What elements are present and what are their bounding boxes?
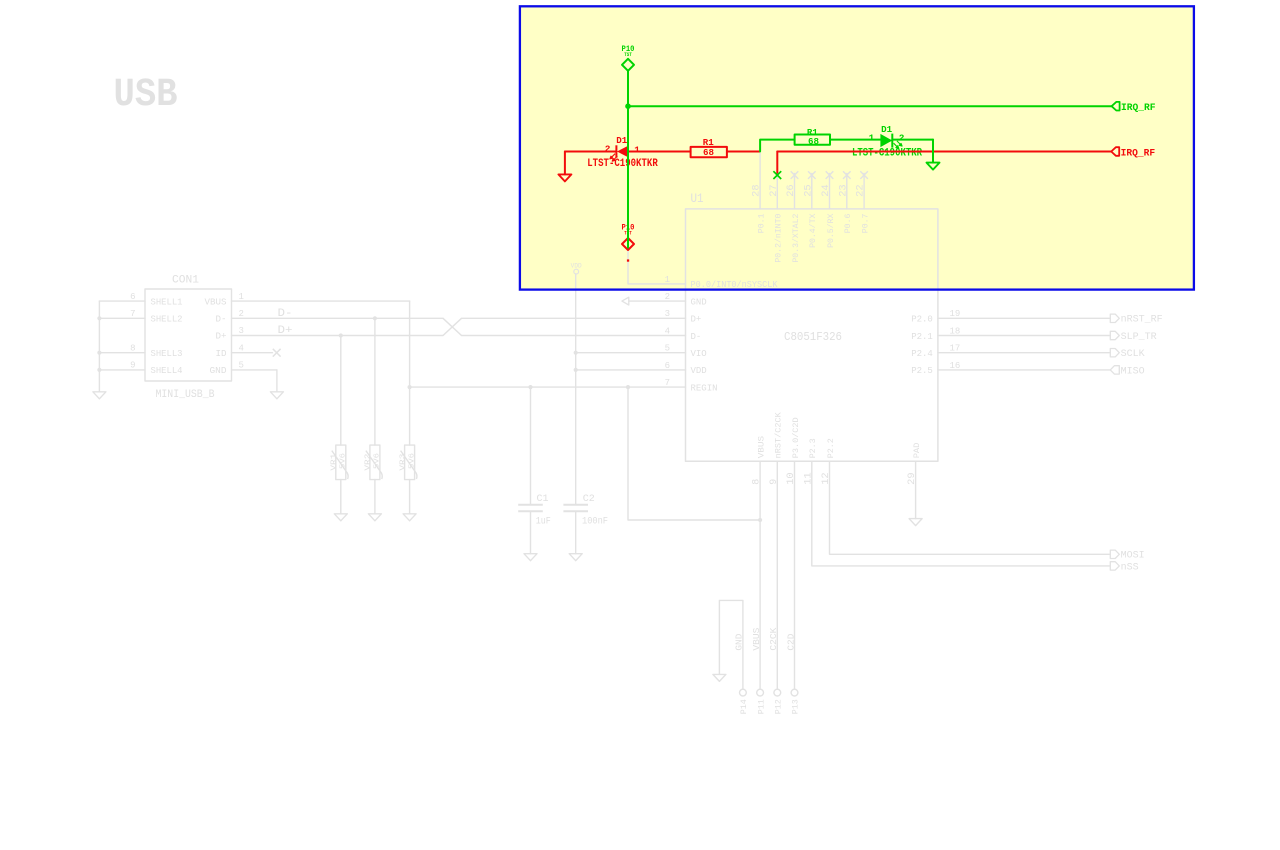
CON1 pin 8 wire [99,352,145,354]
svg-text:3: 3 [665,309,670,319]
junction VBUS-REGIN [408,385,412,389]
highlight box fill [520,6,1194,289]
wire U1 pin1 net [628,251,686,284]
wire PAD pin29 down [915,461,917,518]
svg-text:7: 7 [665,378,670,388]
wire U1 pin19 to nRST_RF [938,317,1110,319]
svg-text:5V6: 5V6 [340,452,348,469]
wire green D1 to ground [892,139,933,141]
junction shield pin9 [97,368,101,372]
wire red net left [565,151,617,153]
ground VR2 [368,514,381,521]
test point P10 (new) [622,59,634,71]
svg-text:D1: D1 [881,124,892,135]
wire green net to IRQ_RF [628,105,1112,107]
wire U1 pin24 [829,173,831,209]
svg-text:nRST/C2CK: nRST/C2CK [774,411,784,458]
svg-text:9: 9 [130,361,135,371]
svg-text:P0.3/XTAL2: P0.3/XTAL2 [791,214,801,263]
svg-text:D-: D- [691,332,702,342]
svg-text:P11: P11 [757,699,766,714]
global label MOSI [1110,550,1119,558]
svg-text:P0.1: P0.1 [757,214,767,234]
svg-text:68: 68 [808,136,819,147]
wire P2.3 to nSS [812,461,1111,566]
svg-text:5V6: 5V6 [408,452,416,469]
svg-text:MOSI: MOSI [1121,551,1145,562]
node red endpoint dot [627,259,629,261]
svg-text:5V6: 5V6 [374,452,382,469]
capacitor C1 [518,387,543,554]
ground shield [93,392,106,399]
ground VR3 [403,514,416,521]
svg-text:LTST-C190KTKR: LTST-C190KTKR [852,148,922,160]
svg-text:1: 1 [869,132,875,143]
global label nRST_RF [1110,314,1119,322]
svg-text:2: 2 [665,292,670,302]
varistor VR3 [401,445,417,514]
svg-text:D+: D+ [691,315,702,325]
svg-text:1: 1 [239,292,244,302]
svg-text:PAD: PAD [912,443,922,459]
junction shield pin8 [97,351,101,355]
svg-text:P14: P14 [740,699,749,714]
test point P10 (old) [622,238,634,250]
svg-text:SHELL4: SHELL4 [151,366,183,376]
wire ID stub [232,352,273,354]
svg-text:C1: C1 [537,494,549,505]
ground red [558,174,571,181]
wire C2D pin10 down [794,461,796,689]
wire D- from CON1 pin2 [232,317,444,319]
CON1 pin 9 wire [99,369,145,371]
label arrow GND pin2 [622,297,629,305]
wire green branch to pin28 [760,140,795,152]
wire red ground drop [564,152,566,175]
wire P2.2 to MOSI [830,461,1111,554]
svg-text:VBUS: VBUS [205,297,227,307]
no-connect X ID [273,349,281,357]
svg-text:VBUS: VBUS [751,627,762,650]
svg-text:P3.0/C2D: P3.0/C2D [791,417,801,458]
wire REGIN net [410,386,686,388]
varistor VR2 [366,318,382,514]
svg-text:VIO: VIO [691,349,707,359]
svg-text:D-: D- [278,308,293,320]
resistor R1 (new, 68) [795,135,830,145]
ground VR1 [334,514,347,521]
CON1 pin 7 wire [99,317,145,319]
svg-text:VR1: VR1 [331,453,339,471]
svg-text:SCLK: SCLK [1121,349,1145,360]
test point P11 [757,689,764,696]
wire U1 pin6 VDD [576,369,686,371]
wire U1 pin5 VIO [576,352,686,354]
global label IRQ_RF (new) [1112,102,1120,111]
wire C2CK pin9 down [776,461,778,689]
svg-text:SHELL2: SHELL2 [151,315,183,325]
junction VDD-VIO [574,351,578,355]
svg-text:nSS: nSS [1121,562,1139,573]
svg-text:18: 18 [950,326,961,336]
svg-text:P0.2/nINT0: P0.2/nINT0 [774,214,784,263]
svg-text:5: 5 [665,344,670,354]
global label nSS [1110,562,1119,570]
svg-text:9: 9 [769,479,780,485]
svg-text:VDD: VDD [691,366,707,376]
wire U1 pin27 [776,173,778,209]
svg-text:P12: P12 [775,699,784,714]
svg-text:24: 24 [821,184,832,197]
wire GND from CON1 pin5 [232,369,277,371]
wire U1 pin25 [811,173,813,209]
svg-text:4: 4 [239,343,244,353]
svg-text:17: 17 [950,344,961,354]
ground C2 [569,554,582,561]
no-connect X [826,171,834,179]
wire D- to U1 pin4 [462,335,686,337]
wire red D1 to R1 [628,151,690,153]
wire VDD vertical [575,274,577,504]
shield bus wire [98,301,100,392]
no-connect X [860,171,868,179]
wire red R1 to pin28 [727,151,759,153]
svg-text:2: 2 [605,144,611,155]
svg-text:LTST-C190KTKR: LTST-C190KTKR [587,158,658,170]
resistor R1 (old, 68) [691,147,727,157]
svg-text:MINI_USB_B: MINI_USB_B [156,389,215,401]
svg-text:3: 3 [239,326,244,336]
junction VBUS-REGIN chain [758,518,762,522]
svg-text:P13: P13 [792,699,801,714]
svg-text:P0.6: P0.6 [843,214,853,234]
svg-text:6: 6 [130,292,135,302]
svg-text:P0.4/TX: P0.4/TX [808,214,818,248]
svg-text:C2D: C2D [785,633,796,650]
svg-text:4: 4 [665,326,670,336]
svg-text:USB: USB [114,73,178,118]
svg-text:P0.7: P0.7 [861,214,871,234]
svg-text:P2.0: P2.0 [911,315,933,325]
svg-text:CON1: CON1 [172,274,199,286]
CON1 pin 6 wire [99,300,145,302]
junction REGIN drop [626,385,630,389]
svg-text:IRQ_RF: IRQ_RF [1121,103,1156,114]
connector CON1 body [145,289,232,381]
svg-text:28: 28 [752,184,763,197]
svg-text:23: 23 [838,184,849,197]
wire VBUS from CON1 pin1 [232,300,410,302]
junction shield pin7 [97,316,101,320]
diode D1 (new, LTST-C190KTKR) [880,134,902,149]
wire green R1 to D1 [830,139,880,141]
svg-text:8: 8 [130,343,135,353]
wire U1 pin16 to MISO [938,369,1110,371]
test point P12 [774,689,781,696]
wire U1 pin26 [794,173,796,209]
svg-text:GND: GND [691,297,707,307]
wire U1 pin2 GND [629,300,686,302]
svg-text:ID: ID [216,349,227,359]
test point P14 [740,689,747,696]
wire U1 pin17 to SCLK [938,352,1110,354]
svg-text:29: 29 [907,472,918,485]
svg-text:6: 6 [665,361,670,371]
highlight box border [520,6,1194,289]
no-connect X [791,171,799,179]
svg-text:SHELL3: SHELL3 [151,349,183,359]
junction VR2 on D- [373,316,377,320]
global label IRQ_RF (old) [1111,147,1119,156]
svg-text:D+: D+ [216,332,227,342]
svg-text:SLP_TR: SLP_TR [1121,332,1157,343]
svg-text:SHELL1: SHELL1 [151,297,183,307]
svg-text:7: 7 [130,309,135,319]
wire GND drop [276,370,278,392]
diode D1 (old, LTST-C190KTKR) [610,145,629,161]
svg-text:nRST_RF: nRST_RF [1121,315,1163,326]
no-connect X [808,171,816,179]
svg-text:P2.3: P2.3 [808,438,818,458]
svg-text:68: 68 [703,147,714,158]
svg-text:26: 26 [786,184,797,197]
svg-text:27: 27 [769,184,780,197]
svg-text:C2: C2 [583,494,595,505]
svg-text:2: 2 [899,132,905,143]
wire VBUS pin8 down [759,461,761,689]
svg-text:D-: D- [216,315,227,325]
wire red net right [777,151,1111,153]
svg-text:25: 25 [803,184,814,197]
ground PAD [909,519,922,526]
svg-text:VDD: VDD [571,262,582,269]
junction green [625,103,631,109]
svg-text:19: 19 [950,309,961,319]
svg-text:P2.4: P2.4 [911,349,933,359]
no-connect X green pin27 [773,171,781,179]
wire green ground drop [932,140,934,163]
wire D+ to U1 pin3 [462,317,686,319]
svg-text:P2.1: P2.1 [911,332,933,342]
svg-text:11: 11 [803,472,814,485]
svg-text:P2.2: P2.2 [826,438,836,458]
svg-text:100nF: 100nF [582,516,608,527]
svg-text:1: 1 [665,275,670,285]
wire crossover D+/D- [443,318,462,335]
svg-text:TST: TST [624,51,632,58]
svg-text:P2.5: P2.5 [911,366,933,376]
svg-text:GND: GND [210,366,227,376]
wire VBUS vertical / VR3 feed [409,301,411,445]
svg-text:VBUS: VBUS [757,436,767,458]
wire REGIN to VBUS chain [628,387,760,520]
junction VR1 on D+ [339,333,343,337]
svg-text:C2CK: C2CK [768,627,779,650]
global label SCLK [1110,349,1119,357]
varistor VR1 [332,336,348,514]
capacitor C2 [563,505,588,554]
ground green [927,163,940,170]
wire U1 pin22 [863,173,865,209]
junction C1-REGIN [528,385,532,389]
ground CON1 GND [270,392,283,399]
global label MISO [1110,366,1119,374]
wire GND hook [719,600,743,689]
wire D+ from CON1 pin3 [232,335,444,337]
svg-text:2: 2 [239,309,244,319]
svg-text:10: 10 [786,472,797,485]
svg-text:5: 5 [239,361,244,371]
no-connect X [843,171,851,179]
ground C1 [524,554,537,561]
svg-text:12: 12 [821,472,832,485]
svg-text:D1: D1 [616,135,627,146]
test point P13 [791,689,798,696]
svg-text:U1: U1 [691,191,704,206]
wire U1 pin28 [759,152,761,209]
wire red drop to pin27 [776,152,778,173]
svg-text:GND: GND [734,633,745,650]
global label SLP_TR [1110,331,1119,339]
svg-text:C8051F326: C8051F326 [784,330,842,344]
svg-text:22: 22 [856,184,867,197]
svg-text:VR2: VR2 [365,454,373,471]
svg-text:VR3: VR3 [399,453,407,471]
svg-text:8: 8 [752,479,763,485]
wire green P10 vertical [627,71,629,248]
svg-text:IRQ_RF: IRQ_RF [1121,148,1156,159]
ground test GND [713,674,726,681]
wire U1 pin18 to SLP_TR [938,335,1110,337]
svg-text:1: 1 [634,144,640,155]
svg-text:16: 16 [950,361,961,371]
svg-text:MISO: MISO [1121,366,1145,377]
op-amp U1 body C8051F326 [686,209,938,461]
wire U1 pin23 [846,173,848,209]
svg-text:REGIN: REGIN [691,383,718,393]
svg-text:1uF: 1uF [536,516,551,527]
junction VDD-VDD [574,368,578,372]
svg-text:P0.5/RX: P0.5/RX [826,214,836,248]
svg-text:D+: D+ [278,325,293,337]
